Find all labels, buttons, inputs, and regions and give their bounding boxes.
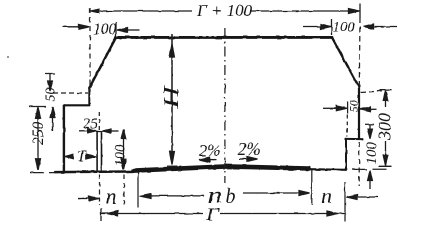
profile right lower wall: [345, 139, 347, 170]
svg-text:100: 100: [364, 142, 380, 165]
profile top edge: [116, 36, 332, 39]
dimension T arrows: [65, 154, 74, 158]
dimension H vertical: [171, 34, 173, 164]
tick 250 top: [29, 106, 46, 108]
slope 2% left arrow: [203, 159, 216, 161]
profile right berm: [346, 138, 363, 140]
svg-text:100: 100: [333, 20, 356, 36]
tick right end of top dimension: [359, 3, 361, 18]
svg-text:250: 250: [30, 122, 47, 146]
dashed stake / dimension extension x=101 bottom: [99, 175, 101, 206]
dimension Г row2: [100, 209, 102, 222]
extension line road edge x=138: [137, 172, 139, 208]
right 50 tick: [347, 102, 349, 114]
stake right line: [101, 133, 103, 172]
slope 2% right arrow: [239, 158, 251, 160]
svg-text:100: 100: [113, 144, 129, 167]
dimension П right row1: [355, 196, 378, 198]
dimension пв row1: [150, 195, 204, 197]
svg-text:2%: 2%: [199, 141, 221, 160]
dashed extension left top x=90: [89, 8, 91, 92]
stake top cap: [97, 130, 103, 132]
svg-text:50: 50: [347, 100, 361, 112]
dashed extension right top x=360: [358, 18, 361, 86]
dimension 50 left upper part: [49, 74, 51, 84]
svg-text:п: п: [106, 184, 117, 209]
profile ground left: [55, 170, 135, 173]
profile right upper wall: [358, 87, 360, 140]
svg-text:п: п: [208, 182, 223, 208]
stake left line: [96, 132, 98, 172]
dimension 50 left lower part: [52, 116, 54, 131]
dashed level line left y=92: [53, 92, 88, 94]
dashed level line right y=92.5: [361, 91, 382, 93]
svg-text:25: 25: [83, 116, 98, 132]
extension line x=312: [311, 170, 313, 205]
svg-text:п: п: [321, 183, 332, 208]
profile left upper wall: [88, 88, 90, 106]
dashed stake centerline above: [98, 112, 100, 130]
tick 50 top: [46, 73, 56, 75]
svg-text:50: 50: [44, 88, 59, 102]
profile left slope: [89, 37, 116, 88]
dimension 300 line: [385, 101, 387, 155]
road surface crowned thick: [134, 166, 309, 170]
ground extension dashes right: [352, 168, 386, 170]
tick right 100 top: [365, 123, 374, 125]
dimension 50 right arrows: [323, 107, 339, 109]
svg-text:Т: Т: [77, 148, 87, 165]
svg-text:b: b: [226, 186, 236, 208]
dimension 100 top-right: [303, 26, 322, 28]
dimension 100 right: [369, 124, 371, 132]
profile left outer wall: [63, 105, 65, 172]
svg-text:300: 300: [375, 113, 395, 141]
svg-text:Н: Н: [160, 84, 183, 110]
dimension п left row1: [78, 198, 90, 200]
dimension Г+100 top line: [90, 10, 360, 12]
profile left berm: [64, 104, 90, 106]
svg-text:2%: 2%: [238, 139, 261, 159]
dimension 250 line: [37, 116, 39, 161]
profile right slope: [332, 37, 359, 87]
dimension 25 arrows: [79, 130, 88, 132]
dashed tick right x=346 above berm: [346, 115, 348, 137]
dimension 100 top-left: [63, 26, 80, 28]
svg-text:100: 100: [93, 21, 117, 38]
ground extension dashes left of wall: [30, 172, 57, 174]
svg-text:Г + 100: Г + 100: [196, 1, 253, 20]
centerline dash-dot: [224, 28, 226, 183]
ground right thin: [309, 168, 347, 171]
dashed extension x=124 below ground: [123, 175, 125, 208]
dimension 100 stake line: [123, 138, 125, 169]
extension line x=345: [344, 182, 346, 221]
dashed wall extension right below berm: [358, 142, 360, 186]
paper speck: [7, 56, 9, 58]
svg-text:Г: Г: [205, 206, 221, 225]
